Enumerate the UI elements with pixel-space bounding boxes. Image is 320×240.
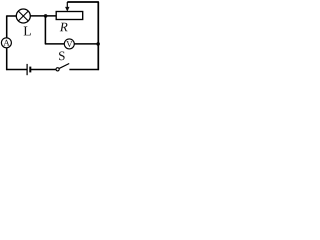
wire: bottom right to switch: [69, 69, 99, 71]
ammeter A: [1, 38, 11, 48]
wire: voltmeter to right branch: [74, 43, 98, 45]
battery cell: [27, 64, 30, 75]
lamp L (circle with X): [16, 9, 30, 23]
node junction dot (lamp-voltmeter tap): [44, 14, 48, 18]
voltmeter V: [64, 39, 74, 49]
switch S: [56, 64, 69, 71]
resistor R (rheostat body): [56, 12, 82, 20]
node junction dot (right branch tap): [96, 42, 100, 46]
rheostat wiper arrow: [65, 2, 69, 12]
label R: [60, 23, 68, 32]
wire: vertical drop from junction to voltmeter branch: [44, 16, 46, 44]
wire: top-left lead from left branch to lamp: [7, 15, 17, 17]
wire: battery to switch: [31, 69, 56, 71]
wire: horizontal to voltmeter: [45, 43, 65, 45]
label S: [59, 51, 65, 60]
wire: left vertical branch upper (lamp to ammeter): [6, 15, 8, 37]
wire: left vertical branch lower (ammeter to battery): [6, 48, 8, 71]
label L: [24, 27, 31, 36]
wire: right vertical branch: [97, 2, 99, 70]
wire: top wire from wiper to right branch: [67, 1, 99, 3]
wire: lamp to rheostat: [31, 15, 57, 17]
wire: bottom left to battery: [6, 69, 27, 71]
